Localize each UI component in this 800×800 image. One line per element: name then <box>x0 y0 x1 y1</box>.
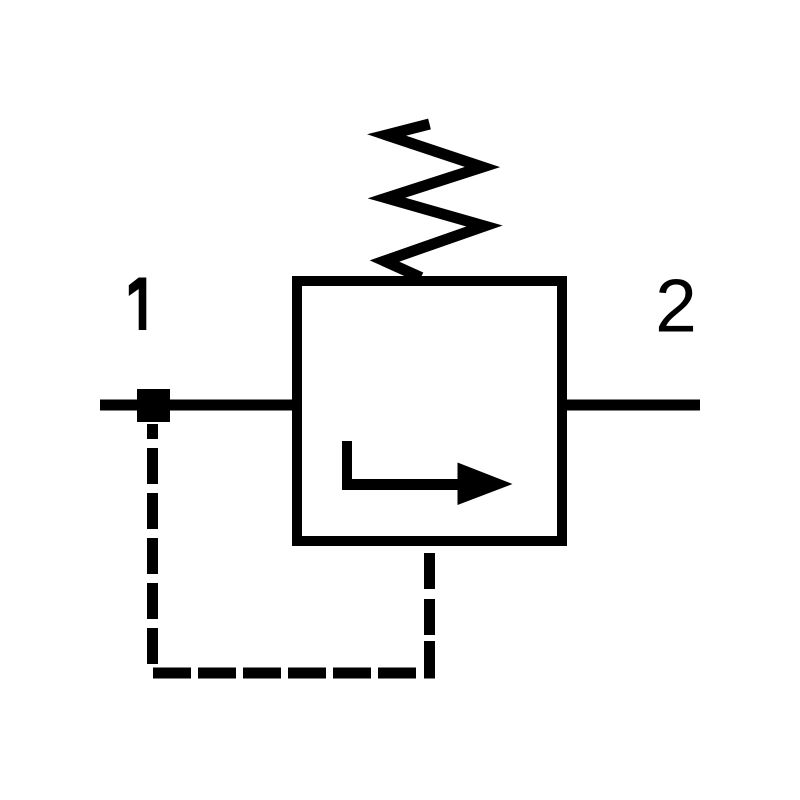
svg-text:2: 2 <box>655 264 697 348</box>
